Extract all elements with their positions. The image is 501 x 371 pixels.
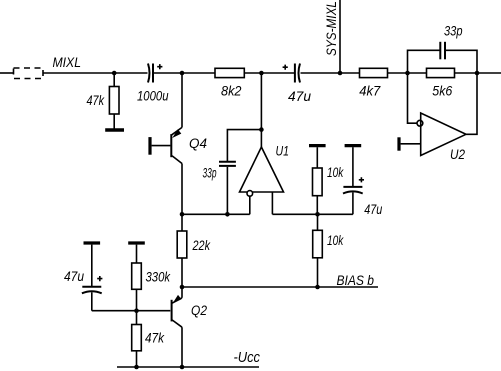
resistor 10k lower [313,214,344,287]
node M junction [180,365,185,370]
resistor 22k [177,214,211,287]
svg-text:330k: 330k [146,270,171,285]
supply terminal bar [309,144,326,147]
resistor 5k6 [427,68,455,98]
svg-text:BIAS b: BIAS b [337,273,375,288]
capacitor 33p feedback U2 [408,24,478,74]
capacitor 33p U1 feedback [203,130,262,215]
node G junction [225,212,230,217]
net SYS-MIXL wire [339,0,341,73]
node D junction [405,71,410,76]
wire [244,72,294,74]
node A junction [112,71,117,76]
supply terminal bar [128,241,145,244]
svg-text:47k: 47k [87,93,105,108]
svg-text:SYS-MIXL: SYS-MIXL [324,1,339,56]
node C junction [259,71,264,76]
supply terminal bar [84,241,101,244]
svg-text:Q2: Q2 [191,303,207,318]
resistor R 47k top-left [87,73,120,129]
wire [154,72,215,74]
wire inverting net [182,213,250,215]
resistor 8k2 [215,68,244,98]
node J junction [315,285,320,290]
node F junction [180,212,185,217]
svg-text:U1: U1 [276,144,290,159]
ground [105,128,124,131]
capacitor 47u bottom-left [64,245,102,311]
node L junction [134,365,139,370]
resistor 47k bottom [132,311,165,367]
svg-text:47k: 47k [145,331,165,346]
node SYS-MIXL junction [338,71,343,76]
terminal U2 noninverting input [397,137,400,150]
svg-text:33p: 33p [203,166,217,181]
capacitor C 47u top [283,64,312,104]
svg-text:8k2: 8k2 [221,84,242,99]
svg-text:47u: 47u [364,202,382,217]
resistor 10k upper [313,147,345,214]
svg-text:47u: 47u [64,269,84,284]
op-amp U1 [240,73,290,214]
svg-text:MIXL: MIXL [53,55,82,70]
node I junction [180,285,185,290]
svg-text:10k: 10k [327,165,344,180]
wire [137,310,171,312]
node K junction [134,308,139,313]
capacitor C 1000u [137,64,169,104]
wire noninverting net [272,213,353,215]
svg-text:22k: 22k [192,238,211,253]
node U1 feedback junction [259,127,264,132]
node E junction [475,71,480,76]
net BIAS b wire [182,286,378,288]
wire [0,72,14,74]
svg-text:Q4: Q4 [189,136,207,151]
wire [388,72,427,74]
net -Ucc rail [117,366,259,368]
connector J1 (dashed box) [14,68,44,79]
wire [301,72,360,74]
node B junction [180,71,185,76]
svg-text:-Ucc: -Ucc [234,349,261,366]
wire [92,310,137,312]
transistor Q2 [172,287,208,367]
capacitor 47u right [343,147,383,217]
wire [455,72,501,74]
resistor 330k [132,245,171,311]
wire [43,72,148,74]
node H junction [315,212,320,217]
supply terminal bar [345,144,362,147]
svg-text:U2: U2 [450,147,465,162]
resistor 4k7 [359,68,387,98]
terminal Q4 base [148,137,151,155]
svg-text:10k: 10k [327,233,344,248]
svg-text:4k7: 4k7 [359,84,380,99]
svg-text:33p: 33p [444,24,463,39]
op-amp U2 [401,73,477,162]
svg-text:5k6: 5k6 [432,84,452,99]
svg-text:1000u: 1000u [137,89,169,104]
svg-text:47u: 47u [288,89,311,104]
transistor Q4 [152,73,208,214]
